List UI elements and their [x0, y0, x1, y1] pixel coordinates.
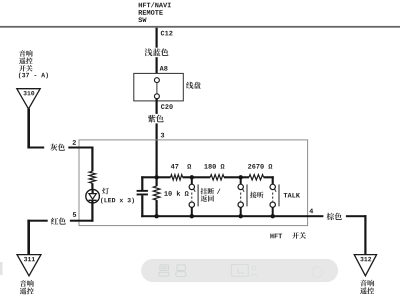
wire rail	[224, 176, 249, 178]
LED branch wire	[91, 147, 93, 172]
cable reel coil link	[156, 83, 158, 94]
toolbar icon small	[251, 266, 258, 277]
wire color label 红色 (red)	[51, 218, 58, 225]
brown wire segment	[346, 215, 367, 217]
gray wire segment to pin 2	[68, 147, 93, 149]
cable reel top contact	[154, 78, 159, 83]
switch actuator	[242, 189, 244, 192]
junction node	[271, 214, 275, 218]
switch 接听 top contact	[238, 184, 243, 189]
pin label C20	[161, 104, 165, 109]
capacitor branch wire	[141, 195, 143, 217]
pin label A8	[160, 66, 164, 71]
wire corner to TALK switch	[272, 176, 274, 184]
label 挂断/返回	[201, 188, 208, 195]
switch stub	[191, 178, 193, 184]
screen edge artifact	[0, 262, 3, 275]
wire color label 灰色 (gray)	[50, 144, 57, 151]
wire pin C12 net	[156, 28, 158, 48]
wire rail to TALK	[264, 176, 274, 178]
toolbar icon monitor	[159, 265, 169, 276]
toolbar overlay pill	[141, 259, 338, 282]
toolbar watermark circle	[312, 267, 322, 277]
switch TALK top contact	[270, 184, 275, 189]
label 2670 Ω	[248, 164, 251, 169]
junction node	[239, 175, 243, 179]
cable reel connector box	[134, 73, 184, 101]
resistor 47 Ω	[171, 175, 183, 180]
wire	[156, 99, 158, 114]
resistor (LED series)	[89, 171, 95, 183]
LED lamp symbol	[86, 189, 100, 203]
label 10 k Ω	[164, 191, 167, 196]
pin label 4	[309, 209, 313, 214]
toolbar icon printer	[176, 265, 186, 277]
toolbar icon frame with arrow	[231, 265, 248, 277]
junction node	[239, 214, 243, 218]
label 线盘 (cable reel)	[186, 82, 193, 89]
capacitor branch wire	[141, 176, 143, 190]
label HFT/NAVI REMOTE SW	[139, 3, 142, 8]
red wire segment to pin 5	[70, 220, 94, 222]
resistor 10 kΩ	[153, 186, 160, 200]
wire color label 浅蓝色 (light blue)	[145, 48, 153, 56]
switch stub	[240, 178, 242, 184]
label 灯 (LED x 3)	[102, 188, 109, 195]
junction node	[190, 175, 194, 179]
wire to pin 3	[156, 123, 158, 176]
wire color label 棕色 (brown)	[327, 213, 335, 220]
pin label 3	[161, 133, 164, 138]
wire	[91, 183, 93, 193]
capacitor C plate	[137, 194, 148, 196]
switch 挂断/返回 top contact	[189, 184, 194, 189]
pin label 5	[73, 212, 76, 217]
HFT switch box outline	[79, 140, 308, 226]
junction node	[190, 214, 194, 218]
resistor 10 kΩ leg	[156, 178, 158, 186]
power rail / bus line	[0, 26, 400, 28]
connector triangle 310	[17, 89, 40, 109]
label HFT 开关 (HFT switch)	[270, 234, 273, 239]
switch 挂断/返回 bottom contact	[189, 202, 194, 207]
gray wire segment	[27, 147, 44, 149]
label 音响遥控 (bottom left)	[20, 280, 27, 287]
wire to 311	[27, 220, 30, 255]
resistor 2670 Ω	[249, 175, 264, 180]
resistor 180 Ω	[210, 175, 224, 180]
junction node pin3	[154, 175, 158, 179]
wire color label 紫色 (purple)	[148, 115, 156, 123]
switch actuator	[194, 189, 196, 192]
switch stub	[240, 207, 242, 215]
wire to 312	[364, 215, 366, 255]
connector triangle 311	[17, 255, 41, 276]
brown wire segment	[308, 215, 324, 217]
capacitor C plate	[137, 190, 148, 192]
bottom rail to pin 4	[141, 215, 307, 217]
node top rail	[141, 176, 170, 178]
switch stub	[191, 207, 193, 215]
label 47 Ω	[171, 164, 175, 169]
connector triangle 312	[354, 255, 376, 276]
cable reel bottom contact	[154, 94, 159, 99]
pin label 2	[73, 140, 76, 145]
wire	[91, 201, 93, 222]
switch 接听 bottom contact	[238, 202, 243, 207]
wire	[156, 57, 158, 77]
switch stub	[272, 207, 274, 215]
label 180 Ω	[204, 164, 207, 169]
switch TALK bottom contact	[270, 202, 275, 207]
label 接听 (answer)	[250, 192, 257, 199]
red wire segment	[27, 220, 47, 222]
label 音响遥控 (bottom right)	[360, 280, 367, 287]
pin label C12	[161, 31, 165, 36]
label TALK	[284, 193, 288, 198]
wire rail	[183, 176, 211, 178]
switch actuator	[274, 189, 276, 192]
junction node	[154, 214, 158, 218]
resistor 10 kΩ leg	[156, 200, 158, 215]
wire from 310	[27, 109, 30, 149]
label 音响遥控开关 (37-A)	[19, 50, 25, 57]
